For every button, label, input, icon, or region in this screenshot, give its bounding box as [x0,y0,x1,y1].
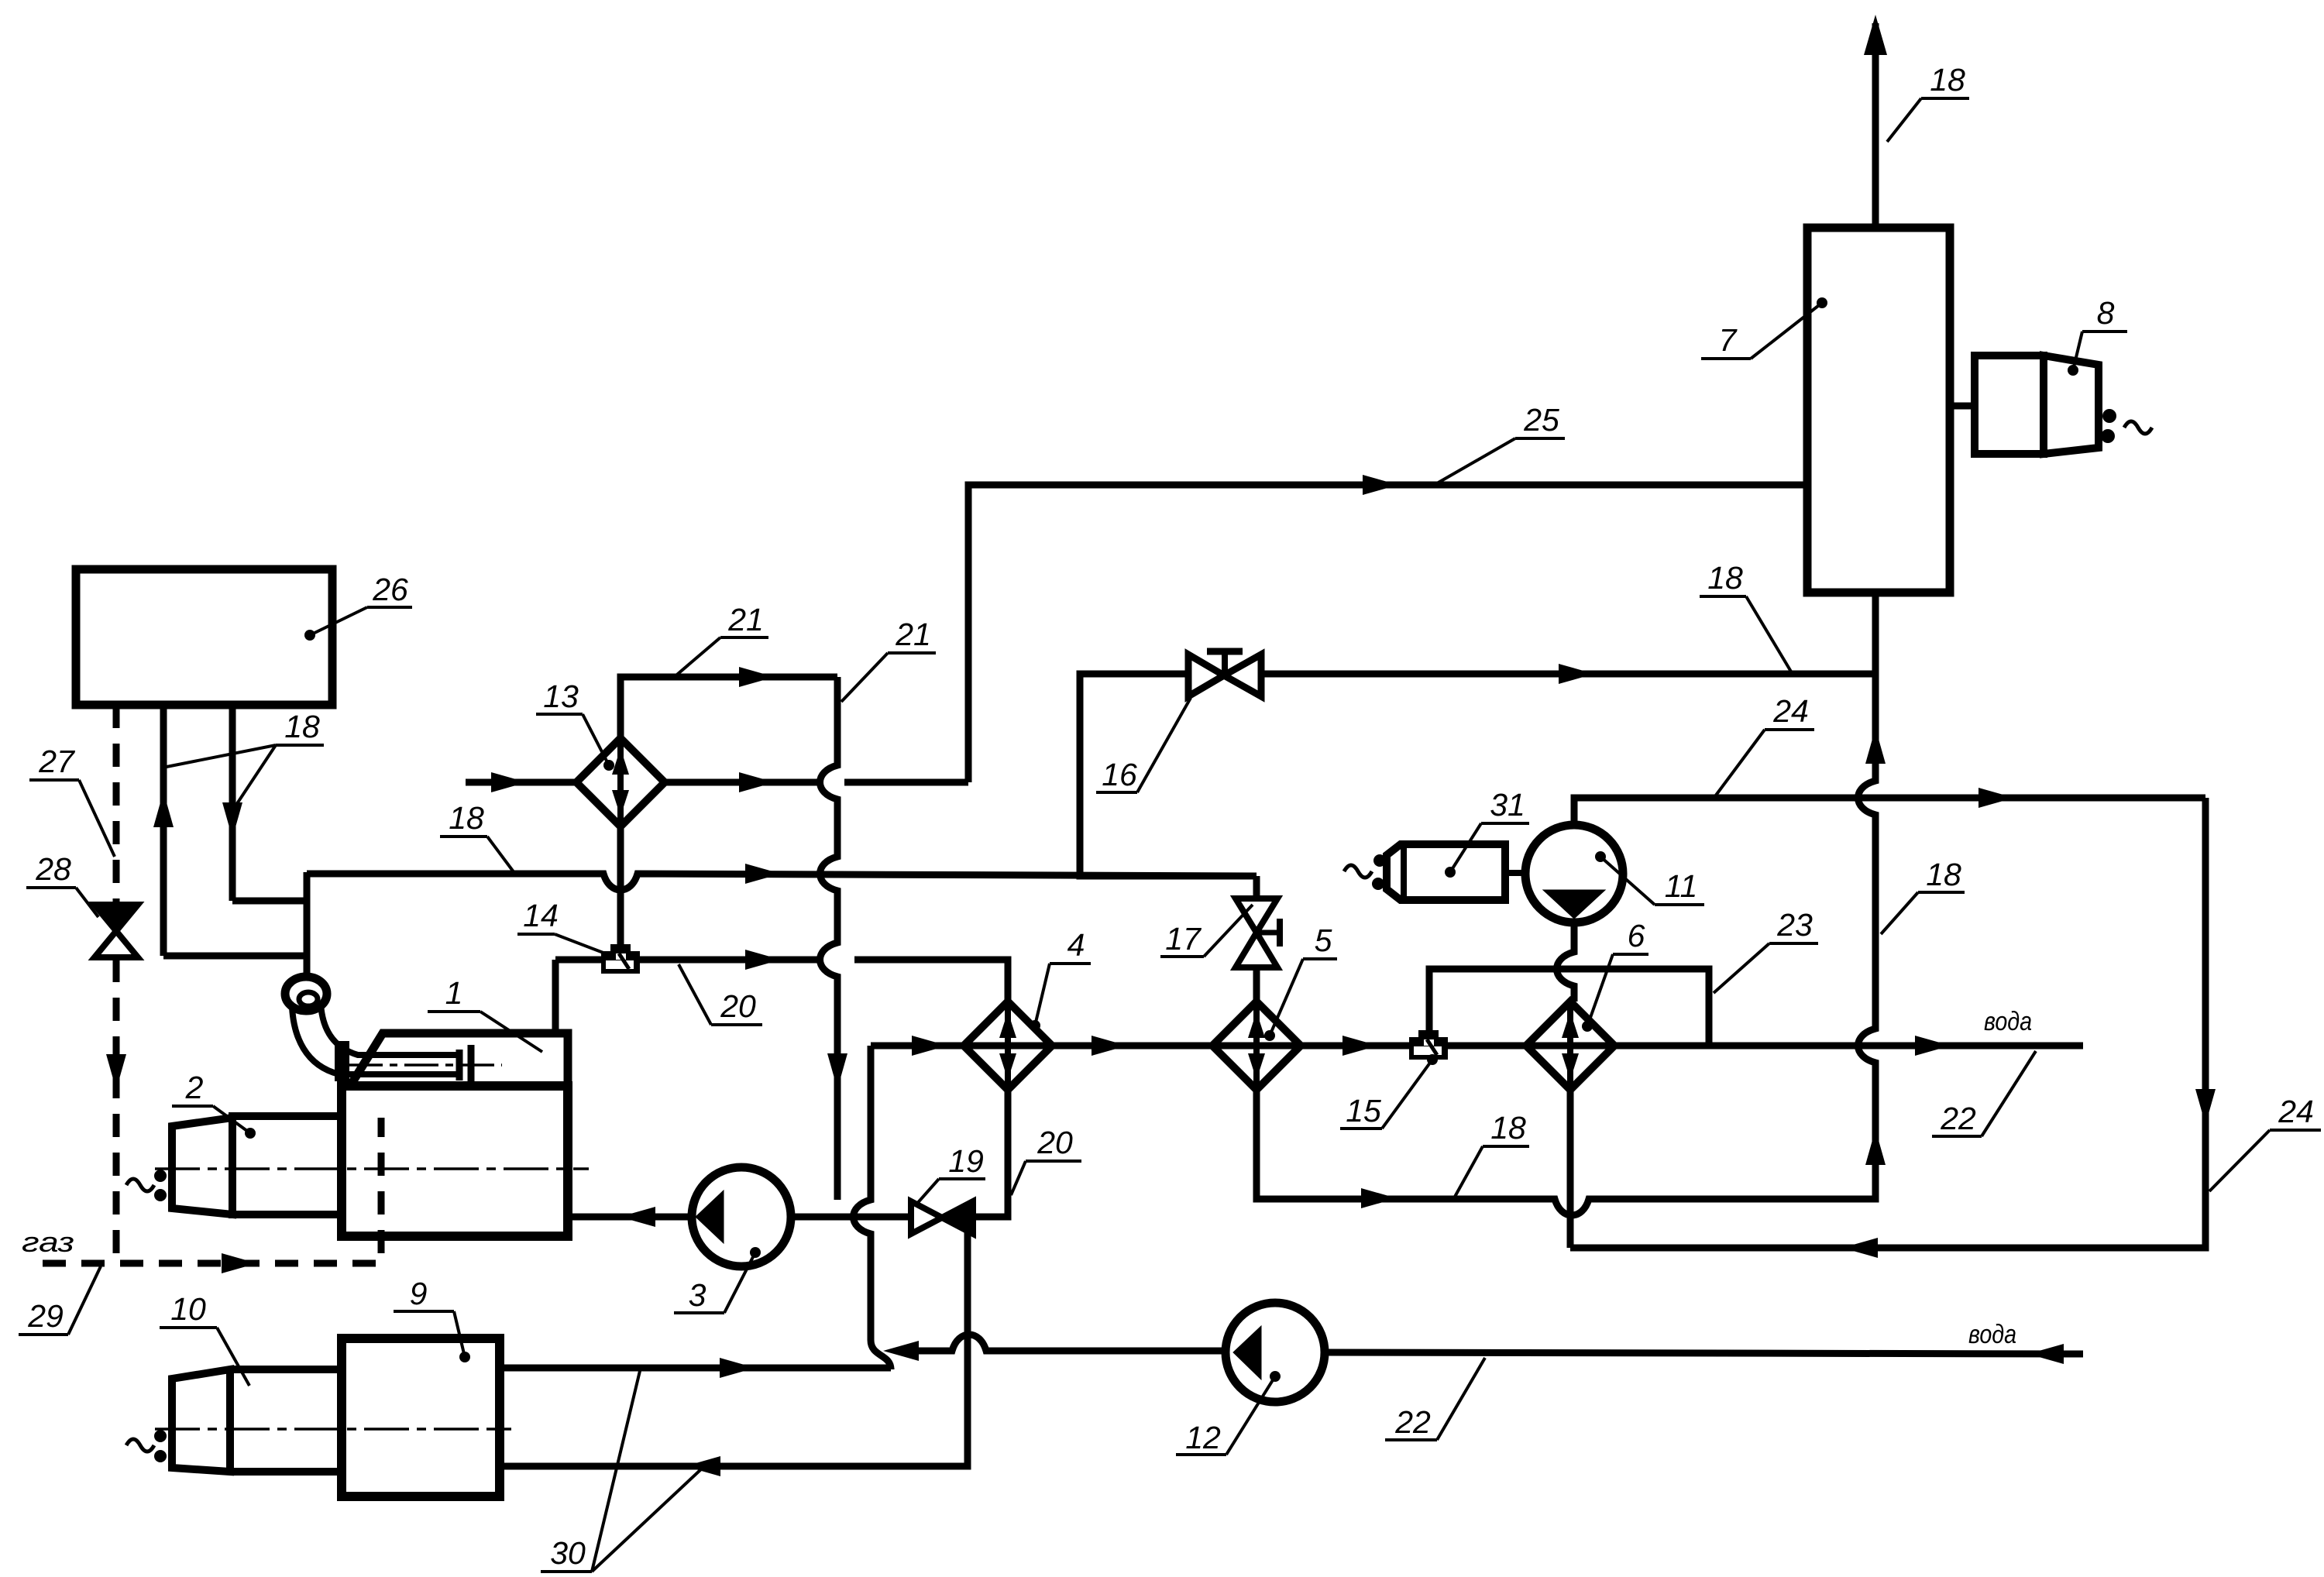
svg-text:24: 24 [2278,1094,2314,1129]
svg-text:19: 19 [948,1143,984,1179]
terminal squiggle of starter 31 [1344,865,1372,878]
label 13 exchanger [536,679,614,771]
flow arrow exhaust out [1864,15,1887,55]
flow arrow main line after exchanger 4 [1092,1036,1127,1056]
wire pump 3 suction line [791,1214,911,1221]
svg-text:18: 18 [284,709,320,744]
svg-text:18: 18 [449,800,484,836]
flow arrow main line after exchanger 5 [1342,1036,1378,1056]
flow arrow up on line 18 riser upper [1865,728,1886,764]
label 9 boiler [394,1276,470,1362]
flow arrow on gas feed line [222,1253,257,1273]
heat exchanger 13 [576,738,665,826]
label 27 gas line [29,744,115,857]
label 16 valve [1096,698,1191,792]
wire inlet to heat exchanger 13 [466,779,577,786]
terminal squiggle of engine 10 [126,1439,154,1452]
valve 28 (gas shutoff) [95,905,138,957]
boiler 7 [1807,228,1950,593]
label 21 loop a [672,602,768,679]
label 19 check valve [915,1143,985,1206]
label 18 engine line [440,800,514,873]
svg-text:27: 27 [38,744,76,779]
label 5 exchanger [1264,922,1337,1041]
centerline of engine 2 axis [155,1167,589,1170]
svg-text:31: 31 [1490,787,1525,823]
wire line 18 left horizontal [163,953,307,960]
svg-text:18: 18 [1707,560,1743,596]
flow arrow after valve 16 [1559,664,1594,684]
wire valve 17 to exchanger 5 [1253,967,1260,1003]
flow arrow on line 20 [745,950,781,970]
flow arrow down on loop 21 riser [827,1053,847,1089]
svg-text:21: 21 [727,602,764,637]
flow arrow down on loop 24 riser [2195,1089,2216,1125]
thermostat 14 [601,944,640,974]
svg-text:9: 9 [410,1276,428,1311]
heat exchanger 4 [964,1002,1052,1090]
flow arrow on line 25 [1363,475,1398,495]
exhaust flange and elbow pipe on engine 1 [285,977,502,1084]
starter tank 31 [1387,844,1505,900]
wire from valve 19 up to exchanger 4 bottom [973,1090,1008,1217]
svg-text:20: 20 [1037,1125,1073,1160]
wire pump 12 discharge to riser (line 22 return) [919,1335,1226,1351]
label 18 on valve16 line [1700,560,1791,672]
generator 8 [1950,356,2099,454]
wire dashed gas line 27 lower [113,959,120,1259]
pump 11 [1525,825,1623,922]
label 30 boiler lines [541,1371,702,1572]
flow arrow on line 18 bottom [1361,1188,1397,1208]
label 26 box [304,572,412,641]
nose cone of engine 2 [172,1118,232,1215]
wire loop 24 right riser and return [1570,798,2205,1248]
label 22 water in [1385,1358,1485,1440]
wire riser from exhaust flange to line 18 [304,872,311,977]
wire dashed gas feed line to engine 1 (газ) [43,1118,381,1263]
wire dashed gas line 27 upper [113,705,120,903]
label 20 pipe a [679,964,762,1025]
svg-text:28: 28 [35,851,71,887]
wire starter 31 to pump 11 [1505,870,1525,876]
wire pump 3 discharge into engine 1 [568,1214,692,1221]
svg-text:15: 15 [1346,1093,1381,1129]
svg-text:1: 1 [445,975,463,1011]
svg-text:21: 21 [895,617,931,652]
svg-text:2: 2 [185,1070,204,1105]
label 28 valve [26,851,98,917]
pump 3 impeller triangle [696,1190,724,1243]
svg-text:18: 18 [1930,62,1965,98]
wire loop 24 top from pump 11 to right riser [1574,798,2205,825]
flow arrow on line 18 [745,864,781,884]
label 24 loop a [1715,693,1814,796]
casing divider of engine 10 [226,1369,234,1472]
svg-text:вода: вода [1968,1320,2016,1349]
pump 12 impeller triangle [1233,1326,1261,1379]
wire engine 1 outlet riser [552,960,559,1033]
label 20 pipe b [1011,1125,1081,1195]
svg-text:16: 16 [1102,757,1137,792]
label 23 loop [1714,907,1818,993]
svg-text:4: 4 [1067,927,1085,963]
flow arrow up on line 18 riser [1865,1129,1886,1165]
terminal squiggle of generator 8 [2124,421,2152,434]
wire exhaust stack 18 from boiler 7 [1872,23,1879,228]
svg-text:18: 18 [1926,857,1961,892]
pump 3 [692,1167,791,1266]
svg-text:25: 25 [1523,402,1559,438]
svg-text:11: 11 [1665,868,1698,904]
terminal squiggle of engine 2 [126,1179,154,1191]
svg-text:17: 17 [1165,921,1202,957]
sensor 15 [1409,1030,1448,1060]
label 14 thermostat [517,898,607,954]
label 18 exhaust top [1887,62,1969,142]
engine hood top of 1 [350,1033,568,1086]
label 10 engine [160,1291,249,1386]
svg-text:13: 13 [543,679,579,714]
wire line 18 from valve 16 to boiler 7 riser [1261,671,1875,678]
svg-text:8: 8 [2097,295,2115,331]
wire from engine 1 top to thermostat 14 [555,957,601,964]
flow arrow outlet 13 [739,772,775,792]
label 11 pump [1595,851,1704,905]
nose cone of engine 10 [172,1369,230,1472]
svg-text:6: 6 [1628,918,1645,953]
svg-text:18: 18 [1490,1110,1526,1146]
svg-text:22: 22 [1940,1101,1976,1136]
wire outlet line of exchanger 13 to line 25 riser [664,779,968,786]
engine block 1 [342,1086,568,1236]
svg-text:5: 5 [1315,922,1332,958]
svg-text:22: 22 [1394,1404,1431,1440]
wire exchanger 6 bottom to loop 24 return [1567,1090,1574,1248]
label 6 exchanger [1582,918,1648,1032]
svg-text:газ: газ [22,1226,74,1258]
wire line 18 from exchanger 5 bottom to boiler 7 riser [1257,593,1875,1215]
label 17 valve [1160,905,1253,957]
wire cooling water inlet line 22 to pump 12 [1325,1352,2083,1354]
wire line 20 from thermostat 14 to exchanger 4 [640,960,1008,1002]
boiler 9 [342,1338,500,1496]
flow arrow down on line 18 right [222,802,242,838]
label 22 water out [1932,1051,2036,1136]
flow arrow on water inlet 22 [2028,1344,2064,1364]
svg-text:7: 7 [1719,322,1738,358]
wire main water line 22 [871,1043,2083,1050]
valve 16 [1188,651,1261,696]
flow arrow main line water outlet [1915,1036,1951,1056]
flow arrow down on gas line 27 [106,1054,126,1090]
casing top of engine 10 [230,1366,342,1373]
label 21 loop b [841,617,936,702]
label 7 boiler [1701,297,1827,359]
label 3 pump [674,1247,761,1313]
flow arrow into boiler 9 return [685,1456,720,1476]
wire branch to valve 16 [1080,674,1257,876]
centerline of engine 10 axis [155,1428,511,1431]
svg-text:23: 23 [1776,907,1813,943]
label 24 loop b [2209,1094,2321,1191]
label 29 gas inlet [19,1266,101,1335]
wire exhaust line 18 from box 26 (left) [160,705,167,956]
flow arrow inlet 13 [491,772,527,792]
label 12 pump [1176,1371,1281,1455]
svg-text:12: 12 [1185,1420,1221,1455]
flow arrow pump 12 discharge [883,1341,919,1361]
flow arrow on boiler 9 outlet [720,1358,755,1378]
svg-text:24: 24 [1772,693,1809,729]
check valve 19 [911,1201,973,1234]
pump 11 impeller triangle [1543,890,1605,919]
wire heating loop 21 top [621,677,837,738]
heat exchanger 5 [1212,1002,1301,1090]
wire engine outlet line 18 to valves 16/17 [307,874,1257,890]
label 25 pipe [1432,402,1565,486]
pump 12 [1226,1303,1325,1402]
svg-text:29: 29 [27,1298,64,1334]
wire riser 22 corner down across pump 3 line to boiler 9 outlet [854,1046,892,1369]
svg-text:вода: вода [1984,1007,2032,1036]
wire loop 21 right riser down to pump 3 suction [820,677,838,1200]
label 18 box26 lines [167,709,324,807]
flow arrow on loop 24 top [1978,788,2014,808]
label 2 turbo [172,1070,256,1139]
turbo casing of engine 2 [232,1116,342,1215]
label 1 engine [428,975,542,1052]
casing bottom of engine 10 [230,1468,342,1476]
wire line 25 riser and top run to boiler 7 [968,485,1807,782]
svg-text:30: 30 [550,1535,586,1571]
label 8 generator [2068,295,2127,376]
flow arrow up on line 18 left [153,792,174,827]
svg-text:10: 10 [170,1291,206,1327]
wire from exchanger 13 down to thermostat 14 [617,826,624,946]
wire pump 11 down to exchanger 6 [1557,922,1575,1002]
wire boiler 9 top outlet line 30 [500,1365,891,1372]
svg-text:3: 3 [689,1277,706,1313]
label 4 exchanger [1030,927,1091,1031]
label 31 starter [1445,787,1529,878]
flow arrow into engine 1 [620,1207,655,1227]
label 18 bottom [1455,1110,1529,1197]
svg-text:14: 14 [523,898,559,933]
wire loop 23 over exchanger 6 [1429,969,1709,1046]
flow arrow main line after corner [912,1036,947,1056]
flow arrow on loop 21 [739,667,775,687]
valve 17 [1236,876,1280,967]
wire exhaust line 18 from box 26 (right) [229,705,236,901]
label 15 sensor [1340,1054,1438,1129]
wire branch 30 down to boiler 9 return [500,1218,968,1466]
label 18 riser [1881,857,1965,934]
svg-text:20: 20 [720,988,756,1024]
flow arrow on loop 24 return [1842,1238,1878,1258]
box 26 (control unit) [76,569,332,705]
heat exchanger 6 [1526,1002,1614,1090]
svg-text:26: 26 [372,572,408,607]
wire line 18 right horizontal [232,898,307,905]
